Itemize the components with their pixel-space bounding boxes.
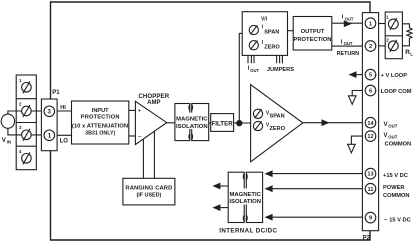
- svg-text:+: +: [137, 108, 141, 115]
- svg-text:V/I: V/I: [261, 16, 268, 22]
- P2 pin 12: [365, 131, 376, 142]
- svg-text:PROTECTION: PROTECTION: [293, 37, 331, 43]
- svg-text:2: 2: [386, 38, 389, 43]
- svg-text:HI: HI: [60, 105, 66, 111]
- svg-text:SPAN: SPAN: [270, 114, 285, 120]
- P2 pin 11: [365, 183, 376, 194]
- P2 pin 5: [365, 69, 376, 80]
- svg-text:4: 4: [19, 149, 22, 154]
- svg-text:9: 9: [369, 216, 372, 222]
- wire +15V from pin 13 to DC/DC: [266, 173, 371, 175]
- svg-text:ISOLATION: ISOLATION: [229, 199, 261, 205]
- svg-text:V: V: [384, 133, 388, 139]
- magnetic isolation (signal) transformer: [175, 104, 209, 141]
- svg-text:14: 14: [367, 121, 374, 127]
- ground loop com: [348, 96, 356, 105]
- svg-text:+ V LOOP: + V LOOP: [381, 73, 408, 79]
- jumper pins right group: [277, 55, 283, 63]
- wire ranging card line 1: [142, 139, 144, 178]
- svg-text:I: I: [342, 15, 344, 21]
- P2 pin 14: [365, 117, 376, 128]
- svg-text:LOOP COM: LOOP COM: [381, 89, 412, 95]
- svg-text:3B31 ONLY): 3B31 ONLY): [85, 131, 115, 137]
- svg-text:POWER: POWER: [383, 185, 405, 191]
- svg-text:JUMPERS: JUMPERS: [267, 67, 294, 73]
- magnetic isolation (DC/DC) transformer: [228, 172, 262, 222]
- wire node A up to V/I box: [239, 33, 242, 123]
- screw terminal 3: [22, 129, 32, 141]
- svg-text:+15 V DC: +15 V DC: [383, 173, 408, 179]
- svg-text:3: 3: [19, 125, 22, 130]
- wire power common pin 11 to DC/DC: [266, 188, 371, 190]
- svg-text:OUT: OUT: [250, 68, 259, 73]
- svg-text:P1: P1: [52, 90, 60, 96]
- arrow DC/DC left lower: [212, 204, 220, 211]
- svg-text:RANGING CARD: RANGING CARD: [125, 186, 172, 192]
- P1 pin 3: [44, 106, 55, 117]
- pin number labels: [367, 21, 374, 221]
- wire +V loop from pin 5: [356, 74, 370, 76]
- svg-text:ZERO: ZERO: [264, 45, 280, 51]
- ranging card box: [123, 178, 175, 205]
- svg-text:FILTER: FILTER: [211, 120, 233, 127]
- arrow +15V: [265, 170, 273, 177]
- wire loop com from pin 6: [352, 91, 370, 96]
- op-amp output amplifier: [251, 85, 303, 162]
- wire DC/DC out left lower: [220, 207, 228, 209]
- svg-text:INTERNAL DC/DC: INTERNAL DC/DC: [219, 228, 277, 235]
- svg-text:RETURN: RETURN: [337, 51, 360, 57]
- pot V span: [253, 109, 262, 118]
- svg-text:1: 1: [369, 21, 372, 27]
- module outer box: [51, 2, 371, 240]
- pot I span: [249, 25, 258, 34]
- arrow +V loop: [349, 71, 357, 78]
- svg-text:OUT: OUT: [344, 41, 353, 46]
- arrow DC/DC left upper: [212, 183, 220, 190]
- screw terminal 1: [22, 81, 32, 93]
- svg-text:COMMON: COMMON: [385, 142, 412, 148]
- svg-text:AMP: AMP: [147, 100, 160, 106]
- P2 pin 13: [365, 168, 376, 179]
- V/I span zero box: [242, 12, 287, 56]
- svg-text:SPAN: SPAN: [264, 29, 279, 35]
- wire P1 pin1 to input protection LO: [49, 134, 71, 136]
- P2 pin 1: [365, 18, 376, 29]
- svg-text:MAGNETIC: MAGNETIC: [229, 192, 261, 198]
- svg-text:COMMON: COMMON: [383, 193, 410, 199]
- load screw terminal 1: [388, 18, 398, 30]
- wire V/I box to output protection: [288, 30, 294, 32]
- label output protection: [293, 29, 331, 43]
- label input protection: [72, 108, 128, 137]
- wire input protection to chopper -: [129, 135, 136, 137]
- svg-text:OUT: OUT: [345, 17, 354, 22]
- wire Vout common from pin 12: [351, 136, 370, 144]
- svg-text:PROTECTION: PROTECTION: [81, 114, 120, 120]
- svg-text:11: 11: [368, 187, 374, 193]
- wire pin1 to load terminal 1: [379, 23, 388, 25]
- node A junction: [237, 121, 242, 126]
- svg-text:OUTPUT: OUTPUT: [301, 29, 325, 35]
- arrow -15V: [265, 214, 273, 221]
- label chopper amp: [138, 93, 169, 106]
- svg-text:OUT: OUT: [388, 124, 397, 129]
- svg-text:L: L: [410, 52, 413, 57]
- resistor RL: [402, 24, 412, 46]
- P2 pin 9: [365, 212, 376, 223]
- svg-text:(IF USED): (IF USED): [136, 193, 161, 199]
- svg-text:I: I: [341, 39, 343, 45]
- wire filter to node A: [234, 122, 251, 124]
- svg-text:(10 x ATTENUATION: (10 x ATTENUATION: [72, 123, 128, 129]
- svg-text:2: 2: [369, 44, 372, 50]
- pot V zero: [253, 121, 262, 130]
- filter box: [211, 114, 234, 132]
- svg-text:P2: P2: [363, 236, 371, 242]
- wire -15V pin 9 to DC/DC: [266, 216, 371, 218]
- arrow Vout: [322, 119, 330, 126]
- input terminal block TB: [16, 75, 36, 170]
- svg-text:ZERO: ZERO: [270, 126, 286, 132]
- source VIN: [1, 114, 14, 128]
- label magnetic isolation signal: [176, 113, 208, 130]
- wire chopper to magnetic isolation: [167, 122, 175, 124]
- jumper pins left group: [248, 55, 254, 63]
- ground Vout common: [348, 144, 356, 153]
- wire Iout return to pin 2: [332, 45, 371, 47]
- screw terminal 2: [22, 105, 32, 117]
- svg-text:− 15 V DC: − 15 V DC: [384, 217, 410, 223]
- arrow power common: [265, 185, 273, 192]
- wire ranging card line 2: [153, 131, 155, 178]
- label ranging card: [125, 186, 172, 199]
- load screw terminal 2: [388, 40, 398, 52]
- external terminal block: [385, 12, 402, 59]
- output protection box: [293, 17, 332, 51]
- svg-text:V: V: [384, 122, 388, 128]
- connector P1: [41, 99, 57, 151]
- arrow Iout: [344, 20, 352, 27]
- wire pin2 to load terminal 2: [379, 45, 388, 47]
- svg-text:12: 12: [367, 134, 373, 140]
- svg-text:5: 5: [369, 73, 372, 79]
- wire P1 pin3 to input protection HI: [49, 110, 71, 112]
- screw terminal 4: [22, 152, 32, 164]
- svg-text:13: 13: [367, 172, 373, 178]
- wire DC/DC out left upper: [220, 185, 228, 187]
- input protection box: [72, 101, 129, 144]
- op-amp chopper amp: [135, 101, 166, 144]
- wire input protection to chopper +: [129, 109, 136, 111]
- svg-text:1: 1: [386, 14, 389, 19]
- P2 pin 6: [365, 85, 376, 96]
- connector P2 strip: [362, 13, 378, 231]
- svg-text:6: 6: [369, 89, 372, 95]
- P1 pin 1: [44, 130, 55, 141]
- svg-text:2: 2: [19, 102, 22, 107]
- svg-text:LO: LO: [60, 138, 69, 144]
- svg-text:ISOLATION: ISOLATION: [176, 124, 208, 130]
- pot I zero: [249, 40, 258, 49]
- svg-text:IN: IN: [7, 140, 11, 145]
- label magnetic isolation DC/DC: [229, 189, 261, 206]
- wire Iout to pin 1: [332, 22, 371, 24]
- svg-text:1: 1: [19, 78, 22, 83]
- svg-text:INPUT: INPUT: [92, 108, 109, 114]
- svg-text:OUT: OUT: [388, 135, 397, 140]
- wire Vin to P1 pin3 (HI): [8, 111, 44, 115]
- svg-text:−: −: [138, 134, 142, 141]
- wire Vout to pin 14: [303, 122, 371, 124]
- wire Vin to P1 pin1 (LO): [8, 128, 44, 135]
- wire magnetic isolation to filter: [209, 122, 211, 124]
- P2 pin 2: [365, 41, 376, 52]
- svg-text:MAGNETIC: MAGNETIC: [176, 117, 208, 123]
